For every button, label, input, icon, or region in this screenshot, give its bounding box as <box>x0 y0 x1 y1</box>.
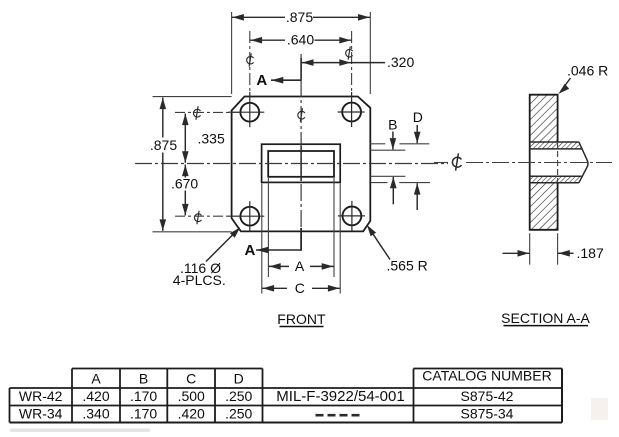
witness line aperture outer bottom <box>370 182 387 184</box>
svg-text:.420: .420 <box>82 388 109 404</box>
hole centerline dashes left lower <box>175 215 240 217</box>
svg-text:CATALOG NUMBER: CATALOG NUMBER <box>422 367 551 383</box>
svg-text:D: D <box>234 370 244 386</box>
centerline symbol left lower <box>194 211 201 225</box>
waveguide aperture opening <box>268 151 334 177</box>
svg-text:.875: .875 <box>150 137 177 153</box>
dim .320 <box>301 62 352 64</box>
svg-text:A: A <box>91 370 101 386</box>
svg-text:.335: .335 <box>198 130 225 146</box>
svg-text:.170: .170 <box>130 405 157 421</box>
svg-text:.565 R: .565 R <box>387 258 428 274</box>
bolt hole bottom-right <box>343 207 362 226</box>
centerline symbol flange center <box>298 108 305 122</box>
bolt hole top-right <box>342 103 361 122</box>
dim C <box>262 287 287 289</box>
dim .187 <box>529 233 531 265</box>
svg-text:B: B <box>139 370 148 386</box>
svg-text:C: C <box>186 370 196 386</box>
svg-text:.640: .640 <box>287 32 314 48</box>
vertical centerline / cutting plane <box>300 54 302 251</box>
svg-text:.500: .500 <box>178 388 205 404</box>
svg-text:WR-34: WR-34 <box>19 405 63 421</box>
svg-text:B: B <box>388 117 397 133</box>
hole centerline dashes left upper <box>175 111 240 113</box>
svg-text:S875-42: S875-42 <box>461 388 514 404</box>
table dashes (no mil spec) <box>316 414 324 417</box>
svg-text:A: A <box>295 258 305 274</box>
svg-text:FRONT: FRONT <box>277 311 326 327</box>
svg-text:.187: .187 <box>577 245 604 261</box>
table vertical borders <box>9 388 11 423</box>
witness lines C dim <box>261 184 263 294</box>
waveguide tube walls (hatched) <box>530 142 587 159</box>
svg-text:.420: .420 <box>178 405 205 421</box>
dim .875 top witness lines <box>231 12 233 94</box>
centerline symbol top right hole <box>346 46 353 59</box>
table header top borders <box>72 368 263 370</box>
svg-text:4-PLCS.: 4-PLCS. <box>173 272 226 288</box>
svg-text:.250: .250 <box>225 388 252 404</box>
svg-text:.046 R: .046 R <box>567 62 608 78</box>
svg-text:D: D <box>413 109 423 125</box>
scan smudge right <box>591 398 608 420</box>
hidden flange edge through tube <box>557 142 559 183</box>
centerline symbol left upper <box>193 106 200 120</box>
svg-text:.170: .170 <box>130 388 157 404</box>
bolt hole bottom-left <box>240 207 259 226</box>
waveguide aperture outer rim <box>262 144 341 182</box>
svg-text:MIL-F-3922/54-001: MIL-F-3922/54-001 <box>276 388 404 405</box>
svg-text:.340: .340 <box>82 405 109 421</box>
svg-text:WR-42: WR-42 <box>19 388 63 404</box>
svg-text:.875: .875 <box>286 9 313 25</box>
dim .335 <box>184 114 186 163</box>
dim A <box>268 265 289 267</box>
witness lines A dim <box>267 178 269 277</box>
svg-text:C: C <box>295 280 305 296</box>
bolt hole top-left <box>240 103 259 122</box>
svg-text:.250: .250 <box>225 405 252 421</box>
dim .640 <box>250 39 285 41</box>
scan smudge bottom-left <box>10 429 150 433</box>
dim .875 top <box>232 16 285 18</box>
svg-text:A: A <box>244 242 255 259</box>
witness line aperture outer top <box>370 143 385 145</box>
section flange body (hatched) <box>530 95 558 142</box>
svg-text:.670: .670 <box>171 176 198 192</box>
section centerline <box>434 162 448 164</box>
dim .670 <box>184 165 186 178</box>
svg-text:S875-34: S875-34 <box>461 405 514 421</box>
centerline symbol top left hole <box>247 53 254 66</box>
svg-text:SECTION A-A: SECTION A-A <box>501 310 590 326</box>
dim .875 left <box>162 98 164 138</box>
witness line aperture inner bottom <box>370 175 405 177</box>
witness line aperture inner top <box>370 149 405 151</box>
tube tapered end <box>579 142 588 183</box>
dim .875 left witness lines <box>153 96 232 98</box>
horizontal centerline (front view) <box>135 163 448 165</box>
svg-text:A: A <box>256 72 267 89</box>
centerline symbol section <box>452 153 461 170</box>
svg-text:.320: .320 <box>387 54 414 70</box>
flange plate outline (front view) <box>232 97 371 232</box>
table row borders <box>10 387 563 389</box>
